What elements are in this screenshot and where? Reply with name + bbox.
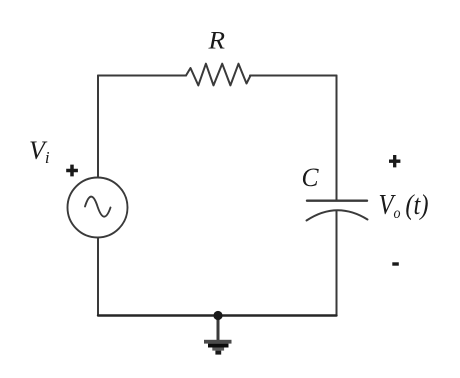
minus sign at output (392, 262, 399, 265)
plus sign at source (66, 165, 78, 177)
svg-text:C: C (302, 163, 320, 192)
wire left lower (97, 238, 99, 316)
junction node dot (213, 311, 222, 320)
svg-text:R: R (207, 26, 225, 55)
ground symbol (204, 340, 232, 355)
wire right upper (336, 76, 338, 201)
wire bottom (98, 314, 337, 316)
wire right lower (336, 211, 338, 316)
wire left upper (97, 76, 99, 178)
svg-text:Vo (t): Vo (t) (379, 190, 429, 222)
svg-text:Vi: Vi (29, 136, 50, 167)
source U1 circle (68, 178, 128, 238)
wire top-left segment (98, 75, 186, 77)
capacitor C1 top plate (307, 199, 367, 201)
plus sign at output (389, 155, 400, 167)
ground stub wire (217, 316, 220, 341)
wire top-right segment (250, 75, 337, 77)
resistor R1 zigzag (186, 64, 251, 86)
source sine wave (85, 197, 111, 217)
capacitor C1 bottom curved plate (307, 210, 368, 220)
